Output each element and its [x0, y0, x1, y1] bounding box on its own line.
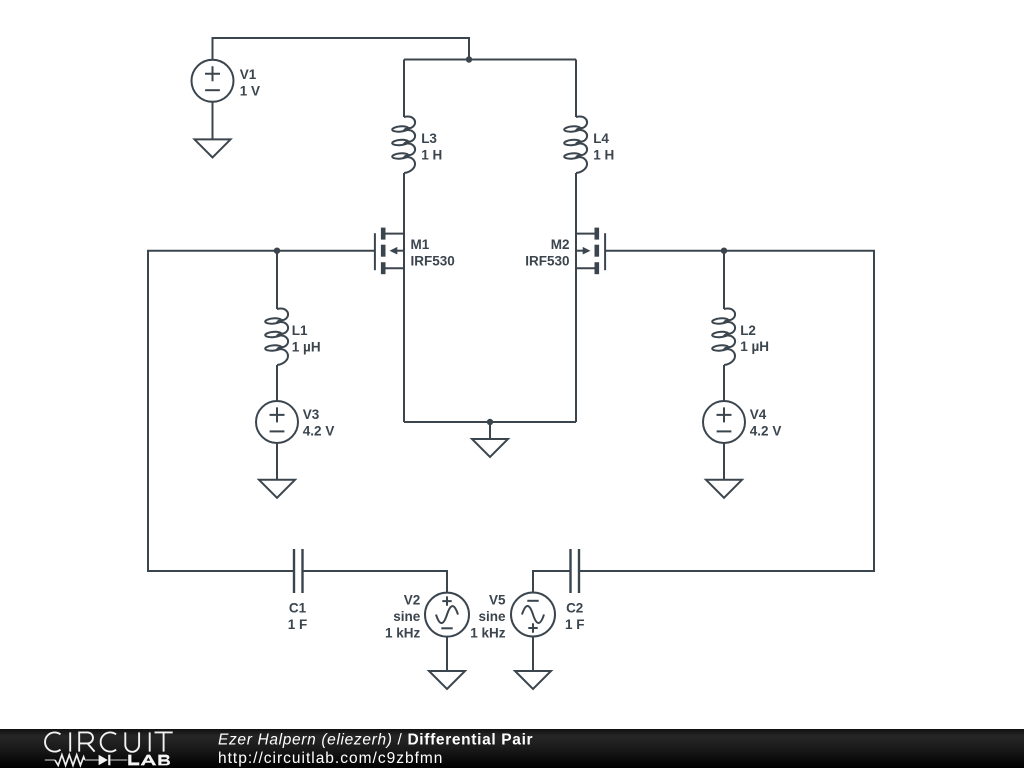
wire: V1 plus to top junction: [213, 38, 470, 60]
ground under V2: [429, 671, 465, 689]
label V3 4.2 V: [303, 407, 335, 438]
svg-text:L3: L3: [421, 131, 437, 146]
wire: top rail L3 to L4: [404, 59, 576, 61]
inductor L3: [404, 117, 415, 173]
voltage source V2 sine: [425, 593, 469, 637]
label L1 1 uH: [292, 323, 321, 354]
label V5 sine 1 kHz: [470, 593, 506, 641]
svg-text:V1: V1: [240, 67, 257, 82]
inductor L2: [724, 309, 735, 365]
voltage source V5 sine: [511, 593, 555, 637]
svg-text:V3: V3: [303, 407, 320, 422]
inductor L1: [277, 309, 288, 365]
svg-text:1 V: 1 V: [240, 83, 260, 98]
ground under V3: [259, 480, 295, 498]
wire: L2 to V4: [723, 365, 725, 401]
svg-text:http://circuitlab.com/c9zbfmn: http://circuitlab.com/c9zbfmn: [218, 750, 443, 767]
svg-text:sine: sine: [478, 609, 506, 624]
svg-text:V4: V4: [750, 407, 767, 422]
svg-text:1 µH: 1 µH: [292, 340, 321, 355]
node: common source junction: [487, 419, 493, 425]
svg-text:C2: C2: [566, 601, 583, 616]
svg-text:V2: V2: [404, 593, 421, 608]
label L4 1 H: [593, 131, 614, 162]
label V4 4.2 V: [750, 407, 782, 438]
svg-text:1 F: 1 F: [288, 617, 308, 632]
wire: V5 plus to ground: [532, 637, 534, 672]
svg-text:4.2 V: 4.2 V: [303, 424, 335, 439]
capacitor C2: [571, 549, 580, 593]
node: top junction: [466, 56, 472, 62]
wire: top rail to L4: [575, 60, 577, 118]
wire: L4 to M2 drain and M2 source down to common node: [575, 173, 577, 422]
wire: C1 to V2 plus: [303, 571, 448, 593]
wire: V3 minus to ground: [276, 444, 278, 480]
label V2 sine 1 kHz: [385, 593, 421, 641]
transistor M2 IRF530: [576, 228, 605, 275]
wire: left rail M1 gate to C1: [148, 251, 375, 571]
svg-text:L1: L1: [292, 323, 308, 338]
svg-text:1 H: 1 H: [593, 148, 614, 163]
voltage source V1: [192, 60, 234, 102]
node: left gate junction: [274, 248, 280, 254]
wire: V2 minus to ground: [446, 637, 448, 671]
svg-text:Ezer Halpern (eliezerh) / Diff: Ezer Halpern (eliezerh) / Differential P…: [218, 731, 533, 748]
svg-text:V5: V5: [489, 593, 506, 608]
svg-text:1 F: 1 F: [565, 617, 585, 632]
CircuitLab logo: CIRCUIT wordmark: [45, 732, 173, 751]
label L2 1 uH: [740, 323, 769, 354]
label C2 1 F: [565, 601, 585, 632]
ground under V5: [515, 671, 551, 689]
wire: right rail M2 gate to C2: [579, 251, 874, 571]
label C1 1 F: [288, 601, 308, 632]
ground at common source: [472, 439, 508, 457]
wire: junction to L1: [276, 251, 278, 309]
svg-text:M2: M2: [551, 237, 570, 252]
logo LAB wordmark: [128, 755, 170, 766]
svg-text:1 µH: 1 µH: [740, 339, 769, 354]
wire: L1 to V3: [276, 365, 278, 401]
voltage source V3: [256, 401, 298, 443]
logo resistor-diode squiggle: [45, 755, 128, 766]
wire: V5 minus to C2: [533, 571, 571, 593]
ground under V4: [706, 480, 742, 498]
label L3 1 H: [421, 131, 442, 162]
svg-text:C1: C1: [289, 601, 307, 616]
label M2 IRF530: [525, 237, 569, 268]
svg-text:IRF530: IRF530: [411, 253, 455, 268]
ground under V1: [195, 139, 231, 157]
wire: top rail to L3: [403, 60, 405, 118]
label M1 IRF530: [411, 237, 455, 268]
svg-text:L2: L2: [740, 323, 756, 338]
wire: L3 to M1 drain and M1 source down to common node: [403, 173, 405, 422]
capacitor C1: [294, 549, 303, 593]
node: right gate junction: [721, 248, 727, 254]
wire: junction to ground stem: [489, 422, 491, 439]
svg-text:1 kHz: 1 kHz: [470, 625, 506, 640]
svg-text:M1: M1: [411, 237, 430, 252]
svg-text:sine: sine: [393, 609, 421, 624]
svg-text:1 H: 1 H: [421, 148, 442, 163]
wire: V4 minus to ground: [723, 444, 725, 480]
svg-text:4.2 V: 4.2 V: [750, 424, 782, 439]
inductor L4: [576, 117, 587, 173]
wire: V1 minus to ground: [212, 102, 214, 140]
svg-text:IRF530: IRF530: [525, 253, 569, 268]
transistor M1 IRF530: [375, 228, 404, 275]
wire: junction to L2: [723, 251, 725, 309]
svg-text:1 kHz: 1 kHz: [385, 625, 421, 640]
wire: M1 source to M2 source: [404, 421, 576, 423]
voltage source V4: [703, 401, 745, 443]
label V1 1 V: [240, 67, 260, 98]
svg-text:L4: L4: [593, 131, 609, 146]
